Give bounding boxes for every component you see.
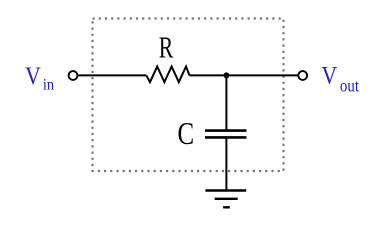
wire input to resistor — [78, 74, 147, 76]
capacitor C — [205, 131, 247, 138]
wire junction to capacitor — [225, 74, 227, 129]
label Vin — [25, 62, 54, 93]
filter enclosure dotted box — [93, 19, 284, 172]
terminal Vout — [298, 71, 307, 80]
svg-text:out: out — [340, 75, 359, 96]
wire resistor to output — [190, 74, 299, 76]
wire capacitor to ground — [225, 139, 227, 190]
label Vout — [322, 62, 360, 96]
svg-text:R: R — [159, 30, 174, 65]
svg-text:V: V — [25, 62, 41, 90]
ground — [205, 191, 246, 208]
svg-text:V: V — [322, 62, 338, 90]
node junction — [223, 72, 229, 78]
svg-text:in: in — [43, 76, 55, 94]
resistor R — [146, 67, 189, 83]
terminal Vin — [69, 71, 78, 80]
svg-text:C: C — [178, 117, 195, 151]
